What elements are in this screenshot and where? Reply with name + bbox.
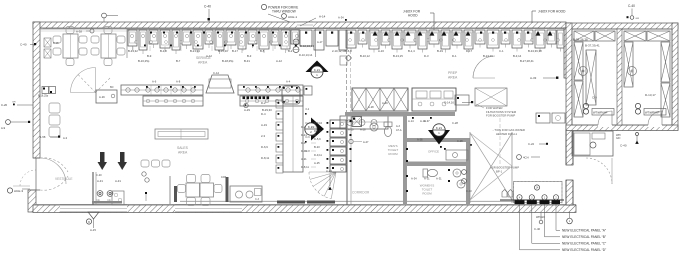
svg-text:C-1: C-1	[499, 49, 504, 53]
storage room 2 shelving	[624, 31, 646, 41]
svg-text:A-38: A-38	[76, 30, 82, 34]
dining chairs 2	[91, 36, 99, 43]
front counter marks	[146, 86, 148, 88]
svg-text:A-29: A-29	[99, 95, 105, 99]
svg-text:A-14: A-14	[408, 119, 414, 123]
svg-text:A-31: A-31	[436, 177, 442, 181]
svg-text:D-8,11: D-8,11	[261, 156, 270, 160]
svg-text:A-29: A-29	[244, 108, 250, 112]
drive-thru window in top wall	[297, 22, 313, 28]
diamond symbol on wall	[346, 55, 352, 61]
filter equipment box	[455, 95, 469, 105]
svg-text:PREP: PREP	[448, 71, 458, 75]
panel wall top line	[500, 199, 564, 201]
svg-text:C-40: C-40	[620, 144, 627, 148]
svg-text:NEW ELECTRICAL PANEL “B”: NEW ELECTRICAL PANEL “B”	[562, 235, 606, 239]
toilet block north wall	[345, 112, 407, 117]
front counter lower	[143, 96, 203, 106]
box left of wall	[340, 56, 347, 65]
svg-text:B-18: B-18	[53, 41, 59, 45]
storage room 1 shelving	[574, 31, 594, 41]
note J-box for hood right	[532, 10, 536, 12]
front counter equipment circles	[146, 88, 150, 92]
svg-text:B-3: B-3	[247, 54, 252, 58]
prep line equipment row	[346, 30, 356, 48]
office right wall	[466, 138, 470, 205]
service line inner details	[130, 34, 133, 37]
section marker 2	[311, 118, 324, 141]
svg-text:WT/WR/WP: WT/WR/WP	[645, 111, 660, 115]
service door fan	[71, 68, 111, 93]
svg-text:AREA: AREA	[198, 61, 208, 65]
svg-text:WT/WR/WP: WT/WR/WP	[593, 111, 608, 115]
back room door swing	[586, 158, 612, 184]
svg-text:D-41: D-41	[301, 133, 307, 137]
svg-text:B-27,28,41: B-27,28,41	[520, 59, 534, 63]
storage outlet 1	[583, 103, 588, 108]
vestibule door arc upper	[40, 158, 68, 172]
svg-text:A-9: A-9	[1, 126, 6, 130]
svg-text:A-29: A-29	[382, 101, 388, 105]
note power for drive-thru window	[261, 4, 266, 9]
drive-thru circles	[293, 39, 299, 45]
svg-text:A-4: A-4	[286, 80, 291, 84]
drive-thru equipment	[300, 30, 312, 46]
svg-text:A-21: A-21	[301, 157, 307, 161]
svg-text:C-13: C-13	[466, 189, 472, 193]
entry door arcs	[40, 158, 66, 184]
panel A	[515, 200, 525, 204]
sales bench	[155, 129, 208, 139]
svg-text:D-13,17: D-13,17	[645, 93, 656, 97]
svg-text:A-17: A-17	[317, 40, 323, 44]
vestibule east wall	[169, 176, 171, 204]
entry door left	[35, 158, 37, 190]
vestibule partition	[92, 172, 94, 205]
svg-text:THRU WINDOW: THRU WINDOW	[272, 10, 296, 14]
wall right lower upper segment	[566, 130, 573, 165]
back room	[572, 131, 613, 156]
window bottom 2	[175, 205, 242, 212]
svg-text:D-2: D-2	[261, 101, 266, 105]
svg-text:D-2: D-2	[301, 125, 306, 129]
water heater boxes	[536, 113, 550, 123]
svg-text:FOR BOOSTER PUMP: FOR BOOSTER PUMP	[486, 114, 515, 118]
svg-text:AREA: AREA	[448, 76, 458, 80]
svg-text:D-1: D-1	[452, 54, 457, 58]
svg-text:B-23: B-23	[314, 145, 320, 149]
toilet wall vertical mid	[403, 112, 407, 205]
circle 1 below wall	[567, 218, 573, 224]
front counter left	[121, 85, 203, 95]
svg-text:A-8: A-8	[176, 80, 181, 84]
counter L small equipment	[276, 100, 283, 108]
svg-text:C-9: C-9	[592, 96, 597, 100]
svg-text:A-31: A-31	[424, 177, 430, 181]
booth seating left wall	[42, 87, 49, 94]
panel C	[540, 200, 550, 204]
counter mid section	[238, 85, 303, 95]
prep table lower	[340, 116, 388, 129]
svg-text:C-12: C-12	[213, 71, 220, 75]
svg-text:NEW ELECTRICAL PANEL “C”: NEW ELECTRICAL PANEL “C”	[562, 241, 606, 245]
door stub right	[226, 177, 229, 202]
wall inner face line	[43, 28, 564, 30]
svg-text:AREA: AREA	[178, 151, 188, 155]
svg-text:D-7,9: D-7,9	[314, 129, 321, 133]
svg-text:B-16,25p: B-16,25p	[138, 59, 150, 63]
storage block outer wall	[566, 23, 678, 29]
pastry case rounded	[282, 86, 300, 104]
svg-text:B-5: B-5	[260, 49, 265, 53]
section marker 1	[306, 61, 329, 73]
chairs by sales	[141, 160, 149, 167]
wall top exterior	[33, 22, 566, 28]
svg-text:B-19: B-19	[437, 49, 443, 53]
svg-text:A-31: A-31	[97, 179, 103, 183]
svg-text:ESR BOOSTER PUMP: ESR BOOSTER PUMP	[490, 166, 519, 170]
soffit line dining	[40, 28, 130, 30]
svg-text:B-21,24: B-21,24	[190, 49, 200, 53]
svg-text:A-38: A-38	[417, 138, 423, 142]
svg-text:B-3,14: B-3,14	[513, 54, 522, 58]
svg-text:A-28: A-28	[368, 105, 374, 109]
svg-text:ROOM: ROOM	[388, 152, 398, 156]
storage lights	[579, 67, 588, 76]
bottom symbol B	[88, 212, 99, 219]
svg-text:B-15,20: B-15,20	[218, 49, 228, 53]
svg-text:D-9: D-9	[301, 141, 306, 145]
svg-text:B-2: B-2	[288, 49, 293, 53]
storage dividing wall	[617, 29, 622, 125]
svg-text:HEATER DWH-1: HEATER DWH-1	[496, 132, 518, 136]
service label leaders	[132, 46, 134, 51]
svg-text:2-3: 2-3	[261, 134, 265, 138]
women top wall	[407, 162, 466, 167]
service line counter back line	[127, 29, 300, 31]
storage interior outline	[572, 29, 672, 125]
svg-text:BP-1: BP-1	[496, 169, 503, 173]
svg-text:VESTIBULE: VESTIBULE	[55, 177, 73, 181]
svg-text:D-9,10: D-9,10	[314, 121, 323, 125]
svg-text:D-8,11: D-8,11	[301, 165, 309, 169]
svg-text:B-1,8: B-1,8	[160, 49, 167, 53]
svg-text:CORRIDOR: CORRIDOR	[352, 191, 370, 195]
storage room 2 door	[648, 123, 662, 127]
svg-text:D-17: D-17	[466, 49, 473, 53]
svg-text:A-16: A-16	[378, 49, 384, 53]
svg-text:A-19: A-19	[420, 119, 426, 123]
prep island right	[412, 88, 456, 111]
svg-text:GFI: GFI	[12, 102, 16, 104]
svg-text:C-40: C-40	[534, 227, 541, 231]
corridor wall vertical	[346, 116, 348, 205]
counter dense black row	[243, 97, 246, 100]
svg-text:D-10,13,14: D-10,13,14	[299, 53, 313, 57]
corridor equipment strip	[330, 120, 346, 128]
svg-text:ACH-1: ACH-1	[288, 15, 297, 19]
corridor door fan	[309, 172, 336, 199]
svg-text:K.21: K.21	[314, 68, 321, 72]
svg-text:B-6,8: B-6,8	[345, 49, 352, 53]
svg-text:C-3: C-3	[255, 198, 260, 201]
svg-text:A-12: A-12	[276, 59, 282, 63]
svg-text:B-34,36,38: B-34,36,38	[573, 38, 588, 42]
svg-text:WP/GFI: WP/GFI	[536, 216, 545, 219]
svg-text:C-40: C-40	[20, 43, 27, 47]
svg-text:2-10,12,14: 2-10,12,14	[332, 49, 346, 53]
svg-text:A-34: A-34	[411, 177, 417, 181]
svg-text:GFI: GFI	[616, 136, 621, 140]
wall right main	[564, 28, 570, 78]
womens tags	[406, 148, 408, 150]
prep hood outline	[370, 28, 475, 32]
panel B	[527, 200, 537, 204]
svg-text:0-84: 0-84	[221, 175, 227, 179]
storage room 1 door	[598, 123, 612, 127]
svg-text:A-27: A-27	[363, 140, 369, 144]
svg-text:GFI: GFI	[636, 18, 640, 20]
svg-text:SALES: SALES	[177, 146, 189, 150]
svg-text:A-25: A-25	[314, 161, 320, 165]
office desk	[446, 150, 468, 160]
water heater platform	[475, 88, 507, 106]
svg-text:A-28: A-28	[360, 128, 366, 132]
svg-text:A-29: A-29	[348, 128, 354, 132]
entry tag A	[7, 188, 12, 193]
panel leader lines	[519, 204, 521, 250]
dining table 2	[101, 34, 116, 58]
mens mop sink	[352, 117, 362, 127]
svg-text:C-40: C-40	[628, 4, 635, 8]
wall right lower bottom segment	[566, 180, 573, 205]
svg-text:1-58: 1-58	[40, 135, 46, 139]
window benches dark	[277, 201, 305, 204]
panel circled 14	[534, 185, 539, 190]
svg-text:B-16,25p: B-16,25p	[38, 95, 49, 98]
svg-text:C-28: C-28	[457, 139, 463, 143]
service line equipment row	[128, 30, 137, 46]
vestibule inner tags	[142, 172, 146, 176]
svg-text:A7-A: A7-A	[396, 129, 402, 132]
svg-text:D-5,9: D-5,9	[314, 137, 321, 141]
svg-text:NEW ELECTRICAL PANEL “D”: NEW ELECTRICAL PANEL “D”	[562, 248, 606, 252]
svg-text:A-34: A-34	[338, 16, 344, 20]
svg-text:D-91: D-91	[301, 149, 307, 153]
leader vertical right area	[499, 118, 501, 168]
svg-text:C-40: C-40	[204, 5, 211, 9]
svg-text:OFFICE: OFFICE	[428, 150, 439, 154]
svg-text:4CH: 4CH	[523, 156, 529, 160]
svg-text:B-13,15: B-13,15	[393, 54, 403, 58]
svg-text:A-33: A-33	[530, 76, 537, 80]
mens fixtures	[384, 122, 392, 137]
podium sales	[96, 90, 117, 103]
svg-text:B-37,39,41: B-37,39,41	[585, 44, 600, 48]
panel dashed enclosure	[514, 182, 563, 203]
prep door arc	[473, 56, 495, 78]
prep island X table	[352, 88, 408, 111]
svg-text:B-7: B-7	[176, 59, 181, 63]
window bottom 1	[60, 205, 127, 212]
corridor south wall line	[180, 200, 520, 202]
corridor strip extra marks	[327, 122, 329, 124]
svg-text:C-14,16: C-14,16	[444, 101, 454, 105]
svg-text:B-1,4: B-1,4	[408, 49, 415, 53]
womens fixtures	[423, 169, 438, 177]
counter L return	[283, 96, 303, 172]
svg-text:NEW ELECTRICAL PANEL “A”: NEW ELECTRICAL PANEL “A”	[562, 228, 606, 232]
counter mid marks	[243, 86, 245, 88]
wall bottom exterior	[33, 205, 576, 213]
planter	[230, 186, 262, 202]
left wall symbols	[44, 38, 51, 47]
svg-text:A-14: A-14	[319, 15, 326, 19]
section marker 3	[428, 130, 450, 145]
svg-text:C-20: C-20	[96, 173, 102, 177]
switch symbols left	[502, 190, 507, 198]
svg-text:ROOM: ROOM	[422, 192, 432, 196]
service line junction boxes	[150, 32, 152, 34]
svg-text:B-31: B-31	[244, 59, 250, 63]
svg-text:B-9: B-9	[147, 54, 152, 58]
traffic arrows	[98, 152, 108, 170]
svg-text:K.21: K.21	[436, 126, 443, 130]
office top wall	[407, 138, 467, 142]
door stub left	[174, 186, 177, 202]
svg-text:SERVICE: SERVICE	[196, 56, 212, 60]
svg-text:A-6: A-6	[152, 80, 157, 84]
tag ACH-1	[282, 14, 287, 19]
dining table 1	[63, 34, 78, 58]
prep wall stub	[346, 50, 348, 112]
wall chairs column	[49, 103, 60, 113]
svg-text:HOOD: HOOD	[408, 14, 418, 18]
svg-text:B-10,12: B-10,12	[360, 54, 370, 58]
counter hood trapezoid	[206, 75, 234, 93]
svg-text:A-19: A-19	[261, 123, 267, 127]
svg-text:D-4: D-4	[261, 112, 266, 116]
svg-text:D-3: D-3	[424, 54, 429, 58]
chase x-brace	[469, 132, 471, 203]
svg-text:ACH-3: ACH-3	[14, 189, 23, 193]
svg-text:C-20: C-20	[1, 103, 8, 107]
svg-text:B-34,36,38: B-34,36,38	[528, 49, 542, 53]
table group block	[186, 183, 200, 197]
svg-text:A-15: A-15	[90, 228, 96, 232]
svg-text:D-10,13,14: D-10,13,14	[300, 44, 314, 48]
svg-text:C-28: C-28	[452, 121, 458, 125]
mens extra tags	[349, 139, 353, 143]
svg-text:C-22: C-22	[528, 142, 535, 146]
storage outlet 2	[635, 103, 640, 108]
dining chairs 1	[53, 36, 61, 43]
svg-text:A-3: A-3	[396, 125, 401, 128]
back room symbol	[590, 142, 596, 148]
wall left lower corner	[28, 190, 36, 212]
corner box above L counter	[304, 86, 312, 95]
svg-text:D-6,9: D-6,9	[261, 145, 268, 149]
svg-text:B-17: B-17	[232, 49, 238, 53]
prep line hood blobs	[373, 31, 378, 36]
tag A-9 left	[6, 120, 11, 125]
top left corner tag	[102, 13, 107, 18]
divider line drive-thru	[315, 28, 317, 57]
svg-text:B-18,25p: B-18,25p	[222, 59, 234, 63]
svg-text:J-BOX FOR HOOD: J-BOX FOR HOOD	[538, 10, 566, 14]
svg-text:A-31: A-31	[115, 179, 121, 183]
counter mid lower	[240, 96, 303, 106]
wall left exterior	[33, 22, 40, 158]
dining ceiling tag	[90, 29, 94, 33]
svg-text:0-2: 0-2	[306, 107, 310, 111]
svg-text:B0/: B0/	[110, 86, 114, 89]
svg-text:A-3: A-3	[63, 136, 68, 140]
svg-text:D-9,11: D-9,11	[314, 153, 322, 157]
tag ACH right	[517, 155, 522, 160]
panel D	[552, 200, 561, 204]
